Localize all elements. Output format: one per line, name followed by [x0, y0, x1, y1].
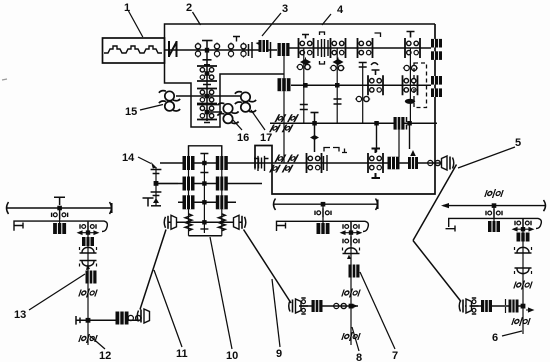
vertical from screw dot: [322, 206, 324, 234]
right paren: [544, 200, 546, 211]
T mark bottom of middle vert: [200, 228, 208, 230]
feed shaft right section: [262, 162, 444, 164]
bars on shaft 14: [151, 170, 162, 174]
dog clutch marks: [320, 32, 325, 64]
bell of left telescopic: [137, 309, 149, 323]
gear block r1-left: [183, 156, 195, 170]
gear z2: [214, 43, 219, 58]
vertical from screw dot: [59, 208, 61, 234]
junction dot nut2: [86, 230, 90, 234]
right wall bearing top shaft: [431, 39, 442, 60]
junction dot: [349, 230, 353, 234]
leader 10: [210, 237, 232, 349]
nut2 center: [343, 222, 359, 231]
table bracket: [277, 221, 369, 231]
horizontal shaft center: [295, 305, 358, 307]
gear block on lower shaft: [394, 117, 405, 130]
tick between gears: [233, 37, 240, 42]
norton block on input shaft: [278, 43, 290, 56]
T bar mid: [203, 84, 211, 86]
cam profile box: [103, 38, 165, 63]
gear on vII-c: [355, 96, 370, 101]
horizontal link y=96: [176, 95, 240, 97]
T support above dot: [54, 197, 65, 205]
gear cluster c2 on shaft II: [197, 89, 217, 104]
vertical vII-a x=303.8: [303, 48, 305, 123]
vertical nut right of bell: [299, 298, 308, 314]
arrow end right: [353, 304, 358, 308]
gear circles: [333, 303, 348, 308]
plate clutch bars: [249, 42, 253, 58]
leader 12: [90, 336, 105, 349]
screw gear dot: [321, 202, 326, 207]
gear cluster D: [405, 38, 420, 58]
vertical nut right of bell: [470, 298, 479, 314]
nut2 on bracket: [80, 222, 96, 231]
screw gear dot: [57, 206, 62, 211]
worm block left chain: [53, 223, 66, 234]
leader 15: [140, 105, 163, 111]
vertical connector x=399: [398, 129, 400, 157]
lower bracket (item 10 pointer): [189, 235, 222, 237]
gear cluster G on feed shaft: [307, 153, 322, 173]
leader 14: [138, 157, 151, 164]
gear circles before bell: [127, 315, 142, 320]
T top vII-c: [359, 63, 367, 68]
second block: [509, 300, 519, 313]
fan drive on chain13: [80, 247, 97, 253]
table bracket: [14, 221, 107, 231]
shaft II: [206, 40, 208, 121]
lower T bar: [203, 60, 212, 65]
output bell: [442, 156, 454, 170]
gear block r2-left: [183, 177, 195, 191]
fan on chain8: [343, 248, 360, 254]
svg-text:15: 15: [125, 106, 137, 118]
T marks right of block: [406, 117, 408, 130]
speed gearbox outline (stepped polygon): [165, 24, 436, 127]
gear cluster C: [358, 38, 373, 58]
svg-text:3: 3: [282, 3, 288, 15]
clutch block (item 7 target): [349, 265, 360, 278]
bell center left: [289, 299, 301, 313]
fan 2 chain6: [515, 268, 532, 274]
leader for label 1: [129, 11, 143, 37]
svg-text:2: 2: [186, 2, 192, 14]
screw: [7, 207, 111, 209]
gear cluster A: [299, 38, 314, 58]
top T bar: [202, 40, 213, 42]
gear z4: [241, 43, 246, 58]
cam zigzag profile: [104, 46, 162, 53]
arrow tip left: [441, 203, 449, 208]
junction dot: [521, 227, 525, 231]
junction dot c3: [205, 110, 210, 115]
T support: [143, 198, 154, 207]
shaft 14 vertical: [155, 167, 157, 206]
diagonal telescopic right: [244, 230, 292, 304]
nut on chain8: [343, 237, 359, 246]
arrow mark: [347, 255, 351, 260]
worm block center: [317, 223, 330, 234]
blob below A: [301, 58, 310, 66]
leader 11: [154, 270, 182, 347]
gear block r2-right: [216, 177, 228, 191]
slant nut on chain13: [79, 289, 98, 298]
leader 17: [251, 110, 265, 130]
left wall bearing: [255, 157, 262, 170]
chain 8 vertical: [350, 221, 352, 345]
link to shaft2: [156, 183, 178, 185]
shaft II top junction: [205, 48, 209, 53]
gear on vII-b: [330, 65, 345, 70]
coupling on feed shaft right of box: [254, 156, 269, 171]
flexible coupling И: [169, 41, 177, 57]
horizontal shaft right assembly: [465, 305, 523, 307]
fork mark above A: [302, 35, 309, 39]
right paren: [376, 199, 378, 211]
screw: [274, 203, 377, 205]
fan 1 chain6: [515, 247, 532, 253]
nut under dot: [315, 208, 331, 217]
bell output left: [164, 215, 176, 229]
block on chain13: [82, 237, 94, 246]
bracket mark above C-D: [375, 33, 381, 37]
slant nut bottom chain13: [79, 334, 98, 343]
norton block mid: [278, 78, 291, 91]
arrow to clutch: [256, 41, 264, 47]
gear cluster E: [368, 75, 383, 95]
T gear r1 middle: [200, 154, 208, 173]
table bracket right: [449, 218, 542, 228]
lower shaft: [270, 122, 437, 124]
svg-text:7: 7: [392, 350, 398, 362]
middle shaft: [291, 84, 431, 86]
vertical connector x=314.5 to feed cluster: [314, 112, 316, 152]
friction clutch block (item 3): [259, 40, 269, 52]
block on chain6: [517, 233, 530, 242]
leader for label 5: [458, 147, 515, 168]
svg-text:12: 12: [99, 350, 111, 362]
right paren: [110, 202, 112, 214]
right wall of gearbox: [255, 24, 435, 194]
crosshair arrows nut2: [78, 231, 98, 234]
bell output right: [234, 215, 246, 229]
arrow above 13 block: [86, 264, 90, 270]
junction dot vII-b: [335, 83, 340, 88]
bevel pair 16 (lower): [217, 103, 238, 123]
diagonal telescopic shaft left: [140, 230, 166, 310]
bracket left foot: [446, 223, 456, 232]
svg-text:5: 5: [515, 137, 521, 149]
svg-text:14: 14: [122, 152, 135, 164]
left paren: [274, 199, 276, 211]
gear z1: [195, 43, 200, 58]
speck: [2, 79, 7, 80]
diagonal shaft lower segment: [413, 241, 461, 302]
slant nut chain6: [514, 281, 533, 290]
horizontal shaft to bell: [76, 319, 137, 321]
chain 6 vertical: [522, 218, 524, 334]
vertical vII-b x=337.2: [336, 48, 338, 123]
chain 13 vertical: [87, 221, 89, 345]
output row shaft: [168, 221, 242, 223]
horizontal link y=112: [207, 111, 222, 113]
nut2 right: [515, 219, 531, 228]
leader 13: [29, 274, 85, 310]
wall gear circles: [427, 160, 442, 165]
bracket left foot: [277, 223, 286, 229]
leader 9: [272, 279, 280, 347]
diagonal shaft upper segment: [413, 165, 457, 241]
gear cluster B: [331, 38, 346, 58]
gear z3: [228, 43, 233, 58]
junction dot r3: [202, 200, 206, 204]
vertical from bottom shaft to feed cluster H: [376, 123, 378, 152]
middle vertical shaft of feed gearbox: [203, 153, 205, 233]
leader 7: [360, 272, 395, 349]
norton slant gear crossing on feed shaft: [270, 155, 298, 173]
safety clutch block (item 13): [86, 271, 97, 284]
dashed clutch box: [414, 63, 427, 108]
bell right assembly: [459, 299, 471, 313]
gear cluster H on feed shaft: [368, 153, 383, 173]
block with arrow on feed shaft: [408, 157, 418, 169]
vertical vII-d x=410.4: [409, 48, 411, 123]
junction dots on lower shaft: [374, 121, 379, 126]
gear cluster F: [403, 75, 418, 95]
arrow above block: [410, 150, 416, 156]
arrow down + T: [153, 198, 159, 203]
vertical vII-c x=362.7: [362, 62, 364, 123]
nut under dot: [52, 210, 68, 219]
junction dot c1: [205, 71, 210, 76]
block on right horizontal: [481, 300, 492, 312]
leader for label 4: [322, 14, 331, 25]
bevel pair 15: [159, 91, 180, 111]
svg-text:13: 13: [14, 309, 26, 321]
junction with horizontal: [86, 318, 91, 323]
svg-text:4: 4: [337, 4, 344, 16]
junction dots r2: [202, 181, 206, 185]
leader for label 2: [193, 12, 201, 25]
arrow at junction: [526, 308, 533, 312]
gear on vII-d: [403, 65, 418, 70]
shaft 2 of feed gearbox: [156, 183, 262, 185]
leader 8: [352, 327, 359, 351]
junction dot c2: [205, 94, 210, 99]
slant nut bottom chain8: [342, 332, 361, 341]
junction dot 14: [154, 181, 159, 186]
clutch bars feed: [324, 155, 328, 171]
left paren: [7, 202, 9, 214]
leader for label 3: [262, 13, 281, 36]
junction with horizontal: [349, 304, 354, 309]
svg-text:9: 9: [276, 348, 282, 360]
leader 16: [233, 120, 242, 130]
bottom T bars: [202, 120, 213, 123]
gear block r1-right: [216, 156, 228, 170]
gear cluster c1 on shaft II: [197, 66, 217, 81]
gear cluster c3 on shaft II: [197, 105, 217, 120]
bars low: [151, 192, 162, 196]
junction with horizontal: [521, 304, 526, 309]
top bracket: [189, 146, 222, 163]
svg-text:8: 8: [356, 352, 362, 362]
norton slant gear crossing on lower shaft: [270, 114, 298, 132]
svg-text:17: 17: [260, 132, 272, 144]
feed shaft left extension: [160, 162, 262, 164]
blob below B: [334, 58, 343, 66]
T bars on vII-a below: [300, 105, 308, 110]
block on center horizontal: [312, 300, 323, 312]
tick marks left of block: [505, 299, 507, 313]
column verticals through gear blocks: [189, 146, 222, 236]
norton vertical shaft: [283, 43, 285, 163]
end ticks: [76, 316, 80, 325]
screw gear dot: [492, 203, 497, 208]
shaft 3 of feed gearbox: [178, 201, 236, 203]
vertical from bottom shaft to feed arrow block: [409, 123, 411, 149]
crosshair arrows: [341, 231, 361, 234]
coupling marks: [324, 148, 339, 152]
svg-text:16: 16: [237, 132, 249, 144]
svg-text:10: 10: [226, 350, 238, 362]
worm block right assembly: [488, 221, 500, 232]
leader 6: [502, 331, 522, 336]
svg-text:11: 11: [176, 348, 188, 360]
slant nut above screw: [485, 189, 504, 198]
junction dot: [303, 83, 308, 88]
right wall bearing mid shaft: [431, 76, 442, 97]
bevel pair 17 (upper right): [235, 92, 256, 112]
gear on vII-a: [296, 64, 311, 69]
gear block on feed shaft: [388, 157, 400, 170]
vertical from screw dot: [493, 206, 495, 232]
spring left: [185, 214, 192, 231]
bracket left foot: [14, 223, 23, 229]
screw with arrow end: [443, 205, 545, 207]
input shaft: [165, 49, 278, 51]
T bars on vII-b below: [334, 99, 342, 104]
nut under dot: [486, 209, 502, 218]
spring right: [218, 214, 225, 231]
svg-text:6: 6: [492, 332, 498, 344]
block on horizontal: [116, 312, 129, 325]
top shaft: [288, 47, 431, 49]
gear block r3-left: [183, 195, 195, 209]
slant nut chain8: [342, 289, 361, 298]
crosshair arrows: [513, 228, 533, 231]
clutch bars: [318, 39, 328, 57]
gear block r3-right: [216, 195, 228, 209]
slant nut bottom chain6: [512, 317, 531, 326]
